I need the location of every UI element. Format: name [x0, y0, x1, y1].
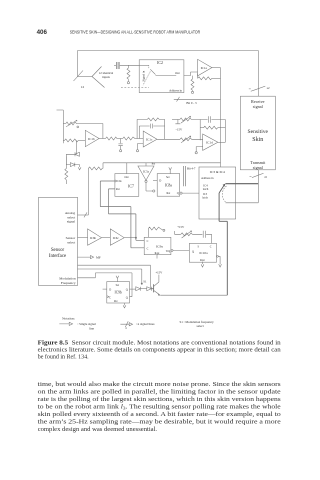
diode D1 [75, 152, 79, 156]
sensor interface box [39, 197, 78, 285]
flip-flop IC8a [157, 174, 180, 197]
svg-text:inputs: inputs [102, 75, 110, 79]
flip-flop IC10 [189, 243, 216, 262]
svg-text:Q: Q [126, 296, 128, 299]
wire buffer in [78, 237, 88, 239]
svg-text:Q: Q [192, 250, 194, 253]
svg-text:Set: Set [116, 284, 120, 287]
wire IC10 right arrow [217, 255, 219, 257]
svg-text:Q: Q [177, 192, 179, 195]
svg-text:IC7: IC7 [128, 184, 134, 188]
wire long rail [103, 162, 221, 164]
wire IC7 out stub [126, 163, 128, 174]
svg-text:IC6b: IC6b [90, 236, 97, 240]
wire to long rail [101, 163, 104, 169]
wire select row1 [78, 265, 151, 288]
svg-text:Clk: Clk [118, 180, 123, 183]
svg-text:signal: signal [67, 220, 75, 224]
svg-text:Sensitive: Sensitive [248, 129, 269, 135]
potentiometer P4 [175, 231, 181, 234]
wire IC1a out [212, 67, 221, 69]
svg-text:D: D [109, 289, 111, 292]
svg-text:the arm’s 25-Hz sampling rate—: the arm’s 25-Hz sampling rate—may be des… [38, 418, 281, 425]
ground arrow set [169, 167, 172, 173]
wire IC5a stub [145, 163, 147, 166]
wire diode tap [76, 140, 78, 154]
bus lines Bit 4-7 [183, 166, 185, 186]
wire fan node [78, 76, 93, 78]
wire IC8a d stub [153, 179, 157, 181]
resistor R4 input [63, 139, 64, 141]
wire bus drop to IC3 [220, 99, 222, 167]
wire IC1c plus [138, 144, 144, 150]
svg-text:Rst: Rst [152, 163, 156, 166]
svg-text:Rqst: Rqst [200, 259, 205, 262]
switch s5 [250, 173, 264, 177]
svg-text:n: n [126, 327, 128, 330]
svg-text:12 identical: 12 identical [99, 71, 114, 75]
svg-text:SENSITIVE SKIN—DESIGNING AN AL: SENSITIVE SKIN—DESIGNING AN ALL-SENSITIV… [70, 30, 201, 35]
bus slash 12 inputs [74, 71, 84, 82]
svg-text:time, but would also make the: time, but would also make the circuit mo… [38, 381, 282, 388]
wire IC2 out inner [156, 75, 177, 77]
wire fb left IC1d [199, 120, 201, 141]
wire IC1a out drop [220, 68, 222, 100]
wire Q2 emitter drop [219, 193, 227, 221]
wire IC2 out [184, 72, 198, 76]
clock wedge [115, 180, 117, 182]
svg-text:Sensor: Sensor [51, 248, 65, 253]
svg-text:Bit 4-7: Bit 4-7 [187, 167, 196, 171]
wire link [140, 288, 147, 290]
set arrow [116, 276, 119, 282]
svg-text:rate is the polling of the lar: rate is the polling of the largest skin … [38, 396, 281, 403]
wire fan lower [92, 77, 105, 88]
op-amp IC1b [85, 130, 99, 146]
svg-text:IC8a: IC8a [165, 184, 172, 188]
svg-text:line: line [89, 326, 94, 330]
bus slash [177, 97, 180, 102]
svg-text:Interface: Interface [49, 254, 66, 259]
svg-text:IC1b: IC1b [88, 137, 95, 141]
notation n-line symbol [120, 321, 132, 327]
wire IC1d plus [196, 147, 203, 152]
diode D4 [147, 287, 152, 291]
buffer IC6b [88, 229, 102, 245]
capacitor C4 feedback [208, 116, 225, 142]
op-amp IC1a [198, 59, 212, 76]
svg-text:MF: MF [96, 256, 101, 260]
svg-text:Figure 8.5 Sensor circuit mod: Figure 8.5 Sensor circuit module. Most n… [38, 340, 281, 347]
wire IC5a out [146, 183, 153, 192]
svg-text:s2: s2 [267, 86, 270, 90]
wire input to C1 [114, 64, 116, 66]
ground arrow [78, 167, 81, 170]
ground [195, 152, 197, 154]
wire top rail [78, 50, 259, 52]
svg-text:skin polled every sixteenth of: skin polled every sixteenth of a second.… [38, 411, 282, 418]
svg-text:S: S [198, 246, 200, 249]
ground [127, 82, 129, 84]
resistor R7 feedback [147, 118, 159, 121]
svg-text:Address in: Address in [169, 89, 182, 93]
resistor R2 [192, 76, 194, 79]
wire D2 out [75, 165, 80, 167]
svg-text:12: 12 [81, 85, 85, 89]
potentiometer P2 [180, 138, 192, 141]
svg-text:Out: Out [175, 71, 180, 75]
resistor R8 feedback [200, 127, 203, 129]
svg-text:IC1a: IC1a [201, 66, 208, 70]
svg-text:Rqst: Rqst [155, 252, 160, 255]
clock wedge [107, 296, 109, 298]
svg-text:Trig: Trig [166, 250, 171, 253]
svg-text:Rst: Rst [167, 192, 171, 195]
svg-text:IC6c: IC6c [113, 236, 120, 240]
wire d stub [103, 288, 107, 290]
svg-text:IC5a: IC5a [143, 169, 150, 173]
wire trig link [171, 249, 173, 251]
ground arrow [201, 262, 204, 267]
inverter IC5a [138, 166, 154, 180]
capacitor C2 to ground [118, 139, 122, 150]
dashed select line [143, 72, 150, 86]
op-amp IC1c [143, 131, 157, 147]
ground [136, 150, 138, 152]
svg-text:Signal in: Signal in [142, 70, 146, 81]
counter IC7 [115, 174, 139, 197]
wire MF arrow [78, 256, 94, 259]
svg-text:–15V: –15V [174, 128, 183, 132]
wire IC2 input [139, 64, 149, 66]
resistor R10 [88, 167, 102, 170]
svg-text:IC1c: IC1c [146, 138, 153, 142]
svg-text:+15V: +15V [177, 225, 185, 229]
wire fb drop [102, 124, 104, 139]
svg-text:IC1d: IC1d [206, 141, 213, 145]
svg-text:S1: S1 [143, 280, 147, 284]
wire left drop [77, 51, 79, 77]
svg-text:C: C [109, 296, 111, 299]
wire transmit thick [226, 183, 259, 185]
wire receive drop [257, 51, 259, 97]
svg-text:Notation:: Notation: [62, 317, 75, 321]
wire emitter row [160, 294, 227, 296]
svg-text:signal: signal [253, 165, 264, 170]
resistor R6 [123, 137, 135, 140]
wire IC7 clk route [100, 181, 144, 248]
svg-text:electronics literature. Some d: electronics literature. Some details on … [38, 348, 281, 354]
wire analog select [78, 214, 89, 216]
svg-text:Address in: Address in [201, 176, 214, 180]
diode D2 [70, 163, 74, 167]
notation single arrow [59, 322, 72, 325]
svg-text:Rst: Rst [116, 188, 120, 191]
sensitive skin box [240, 96, 275, 170]
wire analog riser [87, 168, 89, 215]
bus Bit 0-3 [174, 98, 221, 100]
latch IC3 and IC4 [199, 167, 236, 219]
optical dashed arc [222, 186, 226, 202]
resistor R9 [65, 157, 67, 169]
capacitor C1 [117, 62, 119, 69]
buffer IC6c [110, 229, 124, 245]
svg-text:Frequency: Frequency [61, 281, 76, 285]
wire select row2 [78, 269, 142, 284]
resistor R5 [99, 138, 105, 140]
svg-text:C: C [147, 240, 149, 243]
wire fan upper [92, 67, 102, 77]
capacitor C5 [203, 231, 211, 244]
op-amp IC1d [203, 134, 218, 150]
diode D3 [136, 287, 141, 291]
ground [191, 91, 193, 93]
wire IC8a q out [180, 192, 182, 194]
multiplexer IC2 [139, 60, 184, 93]
svg-text:latch: latch [203, 188, 209, 191]
bus slash [84, 212, 87, 217]
svg-text:IC10a: IC10a [199, 251, 208, 255]
svg-text:Bit 0 - 3: Bit 0 - 3 [186, 101, 197, 105]
svg-text:to be on the robot arm link l3: to be on the robot arm link l3. The resu… [38, 403, 281, 410]
transmit drop [257, 170, 259, 203]
svg-text:latch: latch [202, 197, 208, 200]
transistor Q2 arrow [219, 185, 224, 193]
potentiometer P3 feedback [63, 123, 66, 125]
svg-text:Modulation: Modulation [59, 277, 76, 281]
supply -15V [175, 120, 180, 124]
wire left rail mid [57, 110, 64, 143]
svg-text:complex design and was deemed: complex design and was deemed unessentia… [38, 426, 158, 433]
svg-text:IC2: IC2 [157, 61, 163, 65]
svg-text:on the arm links are polled in: on the arm links are polled in parallel,… [38, 388, 281, 395]
svg-text:D: D [159, 180, 161, 183]
svg-text:406: 406 [37, 29, 48, 36]
flip-flop IC9b [107, 282, 130, 303]
svg-text:s5: s5 [264, 175, 267, 179]
resistor R11 pullup [147, 229, 149, 238]
capacitor C3 feedback [139, 124, 164, 139]
resistor R3 feedback [197, 74, 199, 79]
switch inside IC2 [150, 69, 155, 74]
wire buffer out [124, 237, 136, 239]
svg-text:select: select [197, 324, 204, 328]
wire mod freq route [78, 273, 133, 297]
wire diode loop [66, 154, 75, 164]
timer IC9a [144, 237, 171, 254]
svg-text:Q: Q [126, 289, 128, 292]
svg-text:Out: Out [124, 176, 128, 179]
svg-text:C: C [210, 246, 212, 249]
potentiometer P1 [172, 119, 180, 121]
wire IC1c out [157, 138, 180, 140]
wire buffer link [102, 237, 111, 239]
wire transmit return [226, 202, 259, 204]
svg-text:Set: Set [166, 176, 170, 179]
dashed replicate line [121, 87, 149, 89]
svg-text:: n signal lines: : n signal lines [136, 322, 155, 326]
transistor Q1 [151, 284, 153, 292]
wire right rail [226, 221, 228, 295]
wire C1 to IC2 [120, 64, 139, 66]
svg-text:signal: signal [253, 104, 264, 109]
wire IC7 rst route [109, 189, 145, 240]
resistor R1 [127, 65, 129, 68]
svg-text:Skin: Skin [252, 137, 263, 143]
ground arrow rst [123, 303, 126, 308]
svg-text:select: select [67, 240, 75, 244]
svg-text:Rst: Rst [114, 300, 118, 303]
svg-text:IC9b: IC9b [115, 291, 122, 295]
switch s2 [249, 86, 265, 91]
svg-text:IC9a: IC9a [156, 244, 163, 248]
wire fb left IC1c [137, 119, 147, 138]
wire q out [130, 288, 136, 290]
svg-text:be found in Ref. 134.: be found in Ref. 134. [38, 354, 89, 361]
svg-text:C: C [147, 247, 149, 250]
ground [120, 150, 122, 152]
wire IC1d out [218, 141, 226, 143]
svg-text:IC3 & IC4: IC3 & IC4 [210, 170, 225, 174]
svg-text:+15V: +15V [155, 270, 163, 274]
